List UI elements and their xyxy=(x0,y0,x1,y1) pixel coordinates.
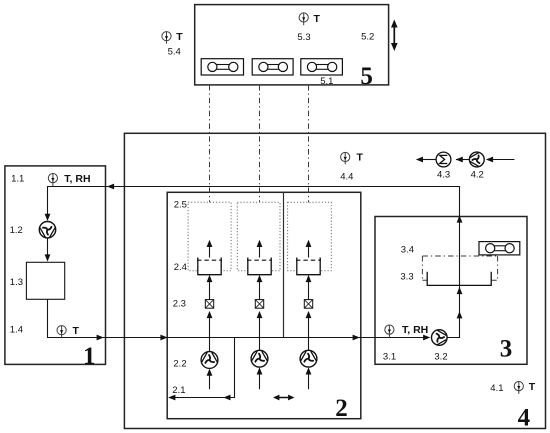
condenser skirt 3.4 dash-dot xyxy=(422,256,497,280)
arrow into unit 2 xyxy=(160,335,167,341)
height adjust arrow 5.2 xyxy=(393,25,395,47)
duct fan to damper ch2 xyxy=(259,317,261,351)
svg-text:T, RH: T, RH xyxy=(402,324,428,336)
sensor 1.4 T xyxy=(57,326,66,338)
fan 3.2 xyxy=(432,330,448,346)
svg-text:3.3: 3.3 xyxy=(400,272,413,283)
drying zone 2.5 ch1 dotted xyxy=(188,202,231,270)
product line from conveyor 5 ch1 xyxy=(209,85,211,202)
svg-text:2.1: 2.1 xyxy=(172,385,185,396)
svg-text:4.3: 4.3 xyxy=(437,170,450,181)
svg-text:3.4: 3.4 xyxy=(401,245,414,256)
svg-text:1.4: 1.4 xyxy=(10,325,23,336)
arrow down to fan 1.2 xyxy=(45,214,51,221)
conveyor 5 #1 xyxy=(201,59,243,75)
svg-text:T: T xyxy=(357,151,364,163)
fan 1.2 xyxy=(39,222,55,238)
recirc arrow mid xyxy=(223,395,230,401)
duct damper to tray ch2 xyxy=(259,281,261,300)
unit 2 enclosure box xyxy=(167,192,361,418)
inlet arrow below fan 2.2 ch3 xyxy=(308,375,310,390)
svg-text:T: T xyxy=(176,31,183,43)
svg-text:4.1: 4.1 xyxy=(490,383,503,394)
sensor 4.1 T xyxy=(514,382,523,394)
collector tray 3.3 xyxy=(427,272,491,286)
svg-text:2.5: 2.5 xyxy=(174,200,187,211)
svg-text:T, RH: T, RH xyxy=(64,173,90,185)
fan 2.2 ch2 xyxy=(251,350,268,367)
drying zone ch2 dotted xyxy=(237,202,280,270)
duct damper to tray ch3 xyxy=(308,281,310,300)
unit 3 enclosure box xyxy=(375,217,527,365)
humidifier box 1.3 xyxy=(26,262,64,299)
svg-text:2.4: 2.4 xyxy=(174,262,187,273)
arrow fan1.2 to humidifier xyxy=(47,238,49,255)
slide arrow in unit 2 xyxy=(277,397,292,399)
wire supply duct (1 to 2 to 3) xyxy=(48,299,426,337)
product line from conveyor 5 ch2 xyxy=(259,85,261,202)
heat exchanger 4.3 xyxy=(436,152,451,167)
sensor 5.4 T xyxy=(162,32,171,44)
svg-text:1: 1 xyxy=(83,343,96,370)
svg-text:1.2: 1.2 xyxy=(10,225,23,236)
drying zone ch3 dotted xyxy=(288,202,332,270)
svg-text:5.3: 5.3 xyxy=(297,32,310,43)
svg-text:4.2: 4.2 xyxy=(471,170,484,181)
sensor 4.4 T xyxy=(341,152,350,164)
svg-text:3.2: 3.2 xyxy=(434,351,447,362)
svg-text:2.3: 2.3 xyxy=(173,299,186,310)
svg-text:4.4: 4.4 xyxy=(340,172,353,183)
tray 2.4 ch3 xyxy=(296,258,321,275)
recirculation duct 2.1 xyxy=(169,338,235,398)
arrow at unit1 exit xyxy=(97,335,104,341)
svg-text:3: 3 xyxy=(500,336,513,363)
svg-text:T: T xyxy=(73,325,80,337)
unit 4 enclosure box xyxy=(124,133,545,428)
tray 2.4 ch2 xyxy=(247,258,272,275)
wire return duct top (3 to 1) xyxy=(48,187,460,338)
arrow 4.2 to 4.3 xyxy=(456,159,469,161)
riser arrow top xyxy=(457,215,463,222)
svg-text:2: 2 xyxy=(335,395,348,422)
svg-text:5.4: 5.4 xyxy=(168,47,181,58)
arrow out of unit 2 xyxy=(353,335,360,341)
exhaust arrow in zone ch2 xyxy=(259,246,261,258)
svg-text:5.1: 5.1 xyxy=(320,76,333,87)
arrow into unit 1 xyxy=(107,184,114,190)
svg-text:T: T xyxy=(529,381,536,393)
riser arrow low xyxy=(457,311,463,318)
sensor 3.1 T,RH xyxy=(385,325,394,338)
fan 2.2 ch3 xyxy=(300,350,317,367)
inlet arrow below fan 2.2 ch1 xyxy=(209,375,211,390)
duct damper to tray ch1 xyxy=(209,281,211,300)
fan 4.2 xyxy=(469,152,484,167)
riser arrow mid xyxy=(457,287,463,294)
conveyor in unit 3 xyxy=(479,242,520,255)
svg-text:1.3: 1.3 xyxy=(10,277,23,288)
inlet wire to 4.2 xyxy=(487,159,515,161)
unit 1 enclosure box xyxy=(5,166,106,365)
conveyor 5 #2 xyxy=(252,59,293,75)
arrow into fan 3.2 xyxy=(423,335,430,341)
conveyor 5 #3 xyxy=(301,59,343,75)
exhaust arrow in zone ch3 xyxy=(308,246,310,258)
product line from conveyor 5 ch3 xyxy=(308,85,310,202)
fan 2.2 ch1 xyxy=(201,352,218,369)
damper 2.3 ch3 xyxy=(304,300,312,309)
svg-text:2.2: 2.2 xyxy=(173,359,186,370)
sensor 1.1 T,RH xyxy=(48,174,57,187)
inlet arrow below fan 2.2 ch2 xyxy=(259,375,261,390)
partition wall in unit 2 xyxy=(283,192,285,337)
svg-text:3.1: 3.1 xyxy=(383,351,396,362)
svg-text:5.2: 5.2 xyxy=(361,31,374,42)
unit 5 enclosure box xyxy=(195,5,389,85)
tray 2.4 ch1 xyxy=(197,258,222,275)
recirc arrow left end xyxy=(168,395,175,401)
duct fan to damper ch3 xyxy=(308,317,310,351)
damper 2.3 ch2 xyxy=(255,300,263,309)
svg-text:4: 4 xyxy=(518,405,531,432)
svg-text:1.1: 1.1 xyxy=(11,174,24,185)
exhaust wire from 4.3 xyxy=(422,159,437,161)
damper 2.3 ch1 xyxy=(205,300,213,309)
svg-text:T: T xyxy=(314,13,321,25)
exhaust arrow in zone ch1 xyxy=(209,246,211,258)
duct fan to damper ch1 xyxy=(209,317,211,352)
sensor 5.3 T xyxy=(299,13,308,25)
svg-text:5: 5 xyxy=(360,63,373,90)
